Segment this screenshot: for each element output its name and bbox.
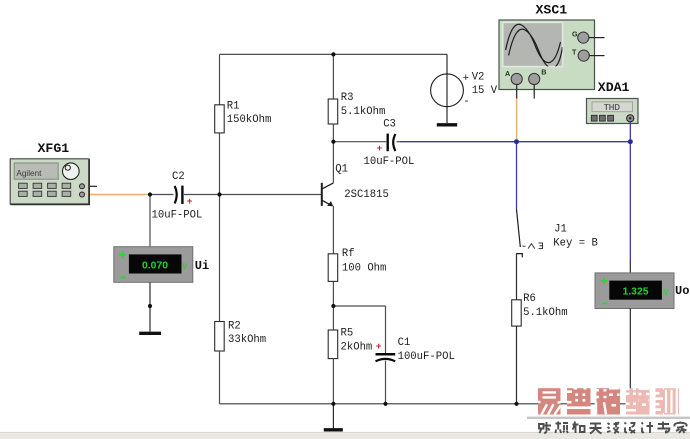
watermark big char 3 (tuo) [596,388,620,414]
switch J1 [516,210,598,258]
wire XSC1 G stub [589,37,605,39]
wire Rf-R5 node down to R5 [332,306,334,330]
svg-text:XDA1: XDA1 [598,80,630,95]
voltmeter Uo [595,273,689,309]
svg-text:R6: R6 [523,293,536,305]
svg-text:5.1kOhm: 5.1kOhm [523,307,568,319]
wire switch to R6 [516,254,518,300]
svg-text:A: A [505,69,510,78]
svg-text:R2: R2 [228,321,241,333]
wire emitter to Rf [332,206,334,254]
svg-text:C3: C3 [383,118,396,130]
wire XFG1 stub (top terminal, unconnected) [84,185,97,187]
wire XSC1 B stub [533,85,535,99]
wire XSC1 A stub [516,85,518,99]
svg-text:Ui: Ui [195,259,209,273]
wire XSC1 T stub [589,55,604,57]
node ground-rail junction at C1 [383,402,387,406]
wire right rail lower [629,309,631,404]
svg-text:B: B [541,68,546,77]
svg-text:XSC1: XSC1 [536,3,568,18]
watermark big char 5 (xun) [655,388,679,414]
node Rf/R5/C1 junction [331,304,335,308]
watermark big char 4 (pei) [626,388,650,414]
svg-text:T: T [572,48,577,57]
svg-text:V: V [663,288,669,297]
distortion analyzer XDA1 [587,80,639,124]
node Ui-ground [148,304,152,308]
svg-text:+: + [187,196,193,207]
watermark big char 2 (di) [567,388,591,414]
svg-text:+: + [463,73,469,85]
wire collector rail (top rail to R3) [332,54,334,99]
ground (bottom rail) [324,404,343,430]
svg-text:-: - [463,96,469,108]
wire right rail to Uo meter [629,261,631,273]
svg-text:2SC1815: 2SC1815 [344,189,389,201]
voltmeter Ui [114,247,209,283]
node Vcc junction (top rail/R3) [331,52,335,56]
wire right rail (blue upper) [629,142,631,261]
node output junction at XDA1 input [628,139,633,144]
svg-text:0.070: 0.070 [142,260,168,271]
node input junction (XFG1/C2/Ui) [148,192,152,196]
svg-text:150kOhm: 150kOhm [227,114,272,126]
svg-text:100uF-POL: 100uF-POL [398,351,455,363]
svg-text:10uF-POL: 10uF-POL [364,156,415,168]
svg-text:5.1kOhm: 5.1kOhm [341,106,386,118]
resistor Rf [328,248,386,306]
watermark big char 1 (yi) [537,388,561,414]
resistor R1 [215,101,272,195]
node ground-rail junction at R5 [331,402,335,406]
svg-text:33kOhm: 33kOhm [228,334,266,346]
capacitor C3 [364,118,415,168]
wire Ui meter to ground [149,282,151,331]
resistor R3 [328,92,385,182]
svg-text:XFG1: XFG1 [38,141,70,156]
wire left rail middle (base node to R2) [219,195,221,322]
capacitor C1 [376,337,455,363]
wire C1 branch horizontal [333,305,385,307]
svg-text:R5: R5 [341,328,354,340]
wire XDA1 input (blue) [629,122,631,142]
transistor Q1 [322,164,389,207]
wire top rail [220,53,448,55]
wire C1 to bottom rail [385,361,387,404]
resistor R2 [215,321,266,404]
dc source V2 [431,71,498,108]
resistor R5 [328,328,372,404]
wire XSC1 A probe (orange) [516,99,518,142]
wire left rail upper (top rail to R1) [219,54,221,104]
svg-text:Rf: Rf [342,248,355,260]
wire node A to C2 [150,194,185,196]
wire V2 drop from top rail [446,54,448,123]
function generator XFG1 [10,141,89,205]
resistor R6 [512,293,568,404]
wire bottom rail [220,403,631,405]
svg-text:2kOhm: 2kOhm [341,341,373,353]
wire Ui meter branch [149,195,151,247]
node base junction (R1/R2/base wire) [217,192,221,196]
svg-text:100 Ohm: 100 Ohm [342,263,387,275]
wire XFG1 output to node A (orange) [85,194,150,196]
svg-text:C1: C1 [398,337,411,349]
svg-text:THD: THD [604,103,620,112]
svg-text:1.325: 1.325 [623,287,649,298]
wire C3 right lead [397,141,400,143]
svg-text:Key = B: Key = B [553,237,598,249]
wire switch branch (blue) [516,142,518,210]
svg-text:C2: C2 [172,171,185,183]
svg-text:R1: R1 [227,101,240,113]
ground (V2) [437,123,457,126]
svg-text:Q1: Q1 [335,164,348,176]
wire C1 branch vertical upper [385,306,387,353]
watermark small text row [539,422,687,434]
svg-text:G: G [572,30,578,39]
wire output net horizontal (blue) [400,141,630,143]
svg-text:15 V: 15 V [472,85,498,97]
ground (Ui meter) [139,332,161,335]
bottom status strip [0,432,690,439]
svg-text:+: + [376,341,382,352]
node output junction at scope A probe [514,139,519,144]
oscilloscope XSC1 [499,3,595,90]
svg-text:V: V [182,262,188,271]
svg-text:+: + [377,143,383,154]
svg-text:10uF-POL: 10uF-POL [152,210,203,222]
svg-text:J1: J1 [554,224,567,236]
wire C3 branch from collector [333,141,386,143]
svg-text:Uo: Uo [675,284,689,298]
watermark underline [527,417,690,419]
svg-text:V2: V2 [472,71,485,83]
wire C2 to base (through left rail) [185,194,322,196]
node ground-rail junction at R6 [514,402,518,406]
svg-text:R3: R3 [341,92,354,104]
svg-text:Agilent: Agilent [16,169,42,178]
capacitor C2 [152,171,203,222]
node collector junction (R3/C3) [331,140,335,144]
